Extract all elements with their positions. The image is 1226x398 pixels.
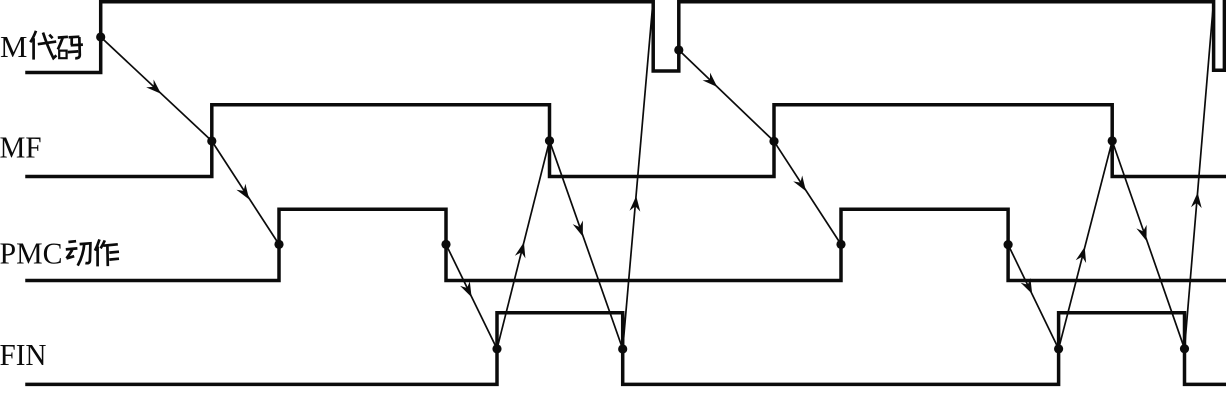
node dot: FIN rise 1	[492, 344, 501, 353]
arrowhead of arrow: M-code to MF (cycle 2)	[703, 73, 718, 87]
arrowhead of arrow: FIN off to M-code off (cycle 1)	[630, 196, 641, 212]
arrow: PMC end to FIN (cycle 1)	[446, 244, 497, 349]
glyph 码 (ma) of label M代码	[58, 35, 68, 38]
arrowhead of arrow: MF off to FIN off (cycle 2)	[1136, 225, 1146, 241]
arrowhead of arrow: M-code to MF (cycle 1)	[146, 80, 161, 94]
wire: FIN signal trace	[27, 313, 1226, 385]
arrow: MF to PMC (cycle 1)	[212, 141, 279, 244]
node dot: FIN fall 1	[618, 344, 627, 353]
node dot: MF rise 1	[207, 136, 216, 145]
node dot: PMC fall 2	[1004, 240, 1013, 249]
svg-text:MF: MF	[0, 129, 42, 164]
arrow: FIN to MF off (cycle 2)	[1059, 141, 1113, 349]
glyph 动 (dong) of label PMC动作	[68, 240, 76, 244]
node dot: FIN fall 2	[1180, 344, 1189, 353]
arrowhead of arrow: PMC end to FIN (cycle 1)	[460, 281, 472, 297]
node dot: MF fall 2	[1108, 136, 1117, 145]
arrowhead of arrow: PMC end to FIN (cycle 2)	[1021, 278, 1032, 294]
arrow: M-code to MF (cycle 1)	[101, 37, 212, 141]
arrowhead of arrow: MF to PMC (cycle 2)	[793, 176, 806, 192]
node dot: PMC fall 1	[441, 240, 450, 249]
svg-text:PMC: PMC	[0, 235, 63, 270]
arrow: FIN to MF off (cycle 1)	[497, 141, 550, 349]
arrowhead of arrow: FIN to MF off (cycle 2)	[1076, 247, 1086, 263]
node dot: MF fall 1	[545, 136, 554, 145]
arrow: MF off to FIN off (cycle 2)	[1112, 141, 1184, 349]
arrow: PMC end to FIN (cycle 2)	[1008, 245, 1059, 349]
wire: MF signal trace	[27, 105, 1225, 177]
arrow: FIN off to M-code off (cycle 2)	[1185, 6, 1214, 349]
arrow: MF off to FIN off (cycle 1)	[550, 141, 623, 349]
arrowhead of arrow: FIN off to M-code off (cycle 2)	[1191, 193, 1202, 209]
arrowhead of arrow: MF to PMC (cycle 1)	[236, 184, 249, 200]
node dot: PMC rise 2	[836, 240, 845, 249]
glyph 代 (dai) of label M代码	[30, 31, 36, 42]
node dot: M-code rise 2	[674, 45, 683, 54]
arrowhead of arrow: FIN to MF off (cycle 1)	[515, 242, 526, 258]
arrow: FIN off to M-code off (cycle 1)	[623, 6, 653, 349]
arrowhead of arrow: MF off to FIN off (cycle 1)	[573, 221, 583, 237]
glyph 作 (zuo) of label PMC动作	[95, 239, 100, 250]
svg-text:FIN: FIN	[0, 337, 47, 372]
node dot: MF rise 2	[769, 137, 778, 146]
node dot: PMC rise 1	[274, 240, 283, 249]
arrow: MF to PMC (cycle 2)	[774, 141, 841, 244]
arrow: M-code to MF (cycle 2)	[679, 50, 774, 141]
svg-text:M: M	[0, 29, 27, 64]
node dot: M-code rise 1	[96, 32, 105, 41]
wire: M-code signal trace	[27, 2, 1226, 73]
node dot: FIN rise 2	[1054, 344, 1063, 353]
wire: PMC action signal trace	[27, 209, 1225, 280]
